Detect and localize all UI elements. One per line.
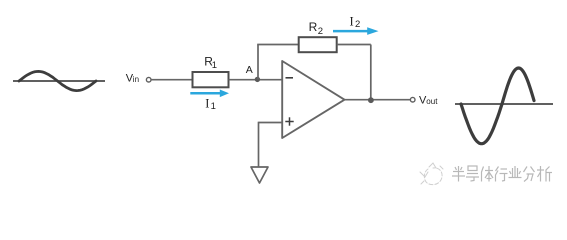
wire R1 to op-amp inverting input: [229, 79, 283, 81]
output waveform baseline: [455, 103, 553, 105]
node A dot: [255, 77, 260, 82]
svg-text:I: I: [350, 14, 354, 28]
op-amp plus sign: [285, 117, 293, 125]
char 业: [509, 166, 522, 178]
resistor R2: [299, 37, 337, 52]
wire down to ground: [258, 122, 260, 167]
svg-text:2: 2: [318, 26, 323, 37]
input sine wave: [19, 71, 96, 90]
label Vout: [419, 95, 438, 107]
output terminal circle: [410, 97, 415, 102]
watermark text 半导体行业分析 (drawn strokes): [452, 166, 552, 182]
input terminal circle: [146, 77, 151, 82]
char 行: [496, 167, 508, 182]
label R1: [204, 55, 217, 72]
svg-text:out: out: [426, 97, 438, 106]
wire terminal to R1: [151, 79, 192, 81]
label Vin: [126, 73, 139, 85]
output node dot: [368, 97, 374, 103]
svg-text:2: 2: [355, 19, 360, 30]
watermark logo sketch: [420, 163, 443, 185]
svg-text:A: A: [246, 64, 253, 76]
char 分: [524, 167, 535, 182]
label I2: [350, 14, 361, 30]
label I1: [205, 97, 216, 113]
current arrow I1: [190, 90, 229, 98]
char 导: [466, 166, 479, 181]
op-amp minus sign: [286, 77, 294, 79]
char 半: [452, 166, 465, 182]
resistor R1: [193, 72, 229, 87]
wire feedback down to output node: [370, 45, 372, 101]
wire R2 to feedback corner: [337, 44, 371, 46]
current arrow I2: [333, 27, 379, 35]
wire non-inverting input: [259, 122, 283, 124]
wire op-amp output: [345, 99, 411, 101]
svg-text:R: R: [309, 20, 318, 34]
char 析: [537, 166, 552, 182]
svg-text:1: 1: [211, 101, 216, 112]
svg-text:in: in: [133, 75, 139, 84]
input waveform baseline: [13, 80, 105, 82]
label R2: [309, 20, 323, 37]
wire node A up to feedback rail: [257, 45, 259, 80]
op-amp U1: [282, 61, 344, 138]
wire rail to R2: [257, 44, 299, 46]
svg-text:1: 1: [212, 60, 217, 71]
output sine wave (inverted, amplified): [461, 68, 534, 144]
char 体: [482, 166, 494, 182]
svg-text:I: I: [205, 97, 209, 111]
ground: [251, 167, 268, 183]
